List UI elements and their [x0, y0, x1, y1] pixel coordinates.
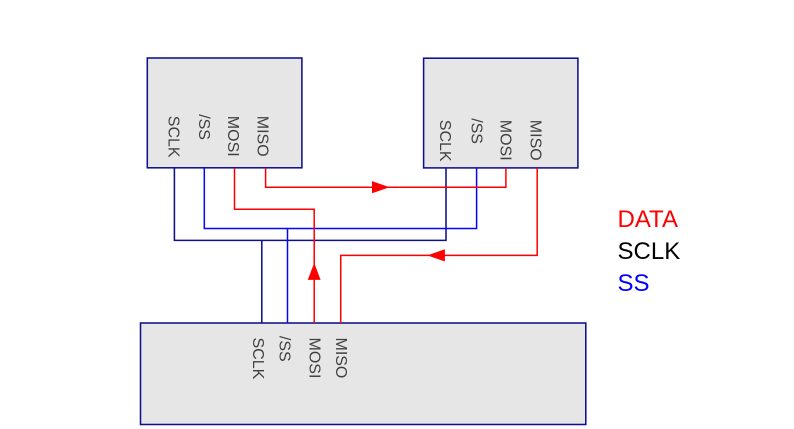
- master box U3 (bottom): [141, 323, 586, 425]
- svg-text:MOSI: MOSI: [497, 120, 514, 161]
- wire DATA (red): U1.MISO down, across, up to U2.MOSI: [266, 168, 506, 187]
- svg-text:/SS: /SS: [195, 114, 212, 140]
- svg-text:SCLK: SCLK: [436, 120, 453, 162]
- svg-text:/SS: /SS: [275, 336, 292, 362]
- svg-text:MISO: MISO: [254, 116, 271, 157]
- svg-text:MOSI: MOSI: [305, 338, 322, 379]
- slave box U2 (top-right): [424, 58, 578, 168]
- svg-text:SS: SS: [618, 270, 650, 297]
- wire DATA (red): U3.MOSI up then left to U1.MOSI: [235, 168, 315, 323]
- wire SCLK branch down to U3.SCLK: [261, 240, 263, 323]
- svg-text:MISO: MISO: [332, 338, 349, 379]
- arrowhead left on U2.MISO->U3.MISO wire: [427, 249, 445, 261]
- svg-text:MOSI: MOSI: [224, 116, 241, 157]
- svg-text:MISO: MISO: [526, 120, 543, 161]
- wire SCLK net (navy): U1.SCLK down, across, up to U2.SCLK: [174, 168, 446, 240]
- svg-text:SCLK: SCLK: [165, 116, 182, 158]
- arrowhead up on U3.MOSI wire: [308, 263, 321, 280]
- arrowhead right on U1.MISO->U2.MOSI wire: [372, 181, 390, 193]
- wire DATA (red): U2.MISO down, left, down to U3.MISO: [341, 168, 538, 323]
- wire SS branch down to U3./SS: [287, 229, 289, 324]
- svg-text:DATA: DATA: [618, 206, 678, 233]
- wire SS net (blue): U1./SS down, across, up to U2./SS: [204, 168, 476, 229]
- svg-text:SCLK: SCLK: [249, 338, 266, 380]
- svg-text:SCLK: SCLK: [618, 238, 681, 265]
- svg-text:/SS: /SS: [468, 118, 485, 144]
- slave box U1 (top-left): [147, 58, 302, 168]
